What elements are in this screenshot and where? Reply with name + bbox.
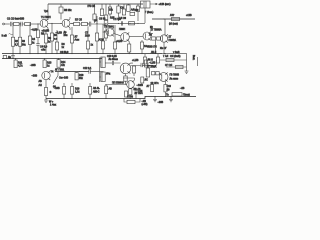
svg-text:Т3 П39Н: Т3 П39Н <box>104 26 114 29</box>
resistor R14c <box>122 4 125 15</box>
svg-text:−1,5В: −1,5В <box>149 62 156 65</box>
capacitor C9b <box>121 21 122 25</box>
transistor T4 <box>42 71 50 80</box>
wire head to C10 <box>105 62 112 64</box>
resistor R9b <box>93 4 96 23</box>
svg-text:ЛС: ЛС <box>145 79 149 82</box>
svg-text:П39Н: П39Н <box>119 28 125 31</box>
svg-text:20н: 20н <box>64 34 69 37</box>
svg-text:−10В: −10В <box>54 87 60 90</box>
svg-text:47к: 47к <box>61 64 66 67</box>
wire mid rail right corner <box>162 54 187 70</box>
transistor T6 <box>127 80 135 88</box>
capacitor C10 <box>112 61 120 65</box>
svg-text:С6 50,0: С6 50,0 <box>60 51 69 54</box>
svg-text:Л4?: Л4? <box>170 14 175 17</box>
capacitor C4 <box>36 38 39 54</box>
resistor R28 <box>113 25 116 54</box>
wire +12V bus <box>152 18 195 20</box>
svg-text:П39ВА: П39ВА <box>169 39 177 42</box>
resistor R13 <box>43 59 46 68</box>
head GU1 <box>101 57 105 68</box>
svg-text:АСМ: АСМ <box>99 38 104 41</box>
svg-text:3 мВ: 3 мВ <box>2 35 8 38</box>
wire T6 collector up <box>123 78 134 80</box>
svg-text:56к: 56к <box>22 43 27 46</box>
svg-text:Ф: Ф <box>50 91 52 94</box>
resistor R30 <box>140 40 143 54</box>
capacitor C12 <box>89 70 104 74</box>
resistor R31b <box>166 58 174 61</box>
resistor R24b <box>127 100 135 103</box>
wire output bracket <box>197 57 199 66</box>
svg-text:R7 С5: R7 С5 <box>75 19 82 22</box>
wire T4 emitter chain <box>45 80 47 88</box>
resistor R7 <box>74 22 82 25</box>
resistor R29b <box>172 17 180 20</box>
resistor R22b <box>105 84 108 99</box>
resistor R27 <box>101 24 104 54</box>
resistor R23b <box>125 91 128 97</box>
svg-text:Т2 П39: Т2 П39 <box>113 18 122 21</box>
resistor R14b <box>57 59 60 68</box>
wire T1 to T2 <box>48 22 62 24</box>
resistor R33 <box>133 66 136 77</box>
svg-text:АВ!-С: АВ!-С <box>93 91 100 94</box>
resistor R36 <box>151 82 154 92</box>
resistor R33b <box>176 65 184 68</box>
svg-text:−10/В: −10/В <box>137 84 144 87</box>
svg-text:АВ: АВ <box>39 80 43 83</box>
resistor R28b <box>157 37 161 40</box>
wire transformer secondary down <box>144 8 146 23</box>
resistor R19 <box>63 83 66 99</box>
svg-text:15к: 15к <box>109 9 114 12</box>
svg-text:С8 33: С8 33 <box>99 17 106 20</box>
svg-text:1,2к: 1,2к <box>75 91 80 94</box>
svg-text:51к: 51к <box>79 77 84 80</box>
ground left <box>11 54 15 59</box>
transformer Tr1 <box>141 1 151 8</box>
svg-text:Ом−10В: Ом−10В <box>59 77 69 80</box>
resistor R21b <box>89 83 92 99</box>
resistor R35b <box>156 72 162 76</box>
wire T7 emitter down <box>163 42 165 54</box>
svg-text:Алм: Алм <box>75 39 80 42</box>
svg-text:АЧ Л: АЧ Л <box>151 51 157 54</box>
svg-text:1к: 1к <box>91 44 94 47</box>
ground bottom left <box>44 99 48 103</box>
resistor R2 <box>11 26 14 54</box>
svg-text:Т1 П39Н: Т1 П39Н <box>41 16 51 19</box>
transistor T8 <box>159 73 168 82</box>
wire rail3 <box>55 71 89 73</box>
resistor R21 <box>36 24 39 38</box>
svg-text:АВ: АВ <box>109 88 113 91</box>
svg-text:20,0: 20,0 <box>85 35 90 38</box>
wire T7 collector up <box>164 19 166 35</box>
svg-text:−0,2В: −0,2В <box>56 31 63 34</box>
svg-text:1 4мк: 1 4мк <box>50 104 57 107</box>
svg-text:ГВ П39В: ГВ П39В <box>170 74 180 77</box>
resistor R27c <box>104 25 107 41</box>
ground bottom right <box>169 97 173 102</box>
wire sub loop right <box>135 99 140 103</box>
svg-text:Л7: Л7 <box>147 85 151 88</box>
resistor R6 <box>28 24 31 54</box>
wire T8 emitter down <box>165 81 167 84</box>
resistor R24 <box>55 30 58 54</box>
resistor R18a <box>129 22 135 25</box>
svg-text:СГ СЯ: СГ СЯ <box>165 64 172 67</box>
resistor R4 <box>18 26 21 54</box>
node input terminal <box>3 23 10 25</box>
resistor R27b <box>152 37 156 40</box>
switch B1 <box>53 72 58 84</box>
svg-text:П39: П39 <box>134 9 139 12</box>
wire T1 collector to rail <box>47 4 49 20</box>
wire T5 collector <box>130 63 140 65</box>
resistor R16 <box>127 4 130 11</box>
capacitor C5 <box>89 22 106 27</box>
resistor R5 <box>59 4 63 20</box>
svg-text:С15: С15 <box>138 90 143 93</box>
svg-text:Вых.: Вых. <box>192 55 195 61</box>
wire head common <box>100 58 101 83</box>
resistor R29 <box>128 42 131 54</box>
resistor R25 <box>86 26 89 53</box>
svg-text:С12 0,1: С12 0,1 <box>83 67 92 70</box>
resistor R35 <box>152 72 155 75</box>
resistor R37 <box>164 84 167 97</box>
svg-text:+12В (пит.): +12В (пит.) <box>159 3 171 6</box>
wire mid rail <box>2 53 162 55</box>
capacitor C1 <box>11 22 14 26</box>
wire bottom rail <box>46 97 196 99</box>
svg-text:ПП П39НА: ПП П39НА <box>112 81 124 84</box>
svg-text:+1,5В: +1,5В <box>132 59 139 62</box>
resistor R34 <box>146 63 149 77</box>
wire T2 to R7 <box>70 22 74 24</box>
head GU2 <box>101 72 105 82</box>
svg-text:С1 С2 6мк×10В: С1 С2 6мк×10В <box>7 18 25 21</box>
svg-text:Лв б/зап: Лв б/зап <box>109 58 119 61</box>
svg-text:т ЗмВ: т ЗмВ <box>173 51 180 54</box>
resistor R32c <box>143 54 146 64</box>
capacitor C2 <box>21 22 25 26</box>
svg-text:W +: W + <box>49 101 54 104</box>
wire second out <box>166 66 187 68</box>
resistor R14 <box>117 4 120 21</box>
svg-text:7 АЛ: 7 АЛ <box>163 55 169 58</box>
transistor T4a <box>121 33 130 42</box>
wire divider tap <box>154 40 156 54</box>
svg-text:(+3В): (+3В) <box>142 103 148 106</box>
svg-text:ЛЧк: ЛЧк <box>106 73 111 76</box>
transistor T5 <box>120 63 131 74</box>
svg-text:+Лв: +Лв <box>41 49 46 52</box>
svg-text:Г (Зап.): Г (Зап.) <box>145 11 153 14</box>
resistor R8 <box>81 22 89 25</box>
resistor R32b <box>156 54 159 63</box>
svg-text:2к: 2к <box>32 41 35 44</box>
svg-text:4,7к: 4,7к <box>18 65 23 68</box>
resistor R22 <box>44 30 47 54</box>
resistor R12 <box>108 4 111 16</box>
inductor Dr1 <box>70 27 73 54</box>
transistor T3 <box>106 28 114 37</box>
wire sub loop left <box>124 99 127 103</box>
resistor R9 <box>100 4 103 16</box>
svg-text:ЖГ: ЖГ <box>149 34 153 37</box>
node sine mark <box>9 34 13 35</box>
svg-text:АЛ: АЛ <box>131 9 135 12</box>
svg-text:Л6 Л: Л6 Л <box>148 59 154 62</box>
wire chain to transformer <box>108 22 145 24</box>
svg-text:−20В: −20В <box>30 64 36 67</box>
resistor R18 <box>75 72 78 80</box>
wire T1 emitter down <box>47 28 49 30</box>
svg-text:С10 0,25: С10 0,25 <box>107 55 117 58</box>
capacitor C15 <box>134 88 137 99</box>
svg-text:Т4: Т4 <box>51 71 54 74</box>
resistor R20 <box>71 83 74 99</box>
svg-text:(М (зап): (М (зап) <box>169 23 178 26</box>
svg-text:+0,5В: +0,5В <box>116 40 123 43</box>
resistor R1 <box>14 22 21 25</box>
svg-text:С4 5,0: С4 5,0 <box>40 46 48 49</box>
resistor R11a <box>3 55 6 58</box>
svg-text:+12В: +12В <box>186 14 192 17</box>
resistor R33c <box>144 60 147 67</box>
wire T3 base <box>103 31 106 33</box>
wire T4a to T5a <box>129 36 143 38</box>
wire +12V feed arrow <box>150 3 158 5</box>
resistor R33d <box>141 77 144 83</box>
svg-text:R5 15к: R5 15к <box>64 9 72 12</box>
svg-text:АЛ: АЛ <box>39 84 43 87</box>
transistor T1 <box>40 19 48 28</box>
svg-text:ЛГ ГЗВ1: ЛГ ГЗВ1 <box>55 68 65 71</box>
svg-text:Ив СГ: Ив СГ <box>160 47 167 50</box>
resistor R23c <box>129 88 132 98</box>
wire top supply rail <box>48 3 143 5</box>
transistor T2 <box>62 19 70 28</box>
svg-text:+19В ПЧ: +19В ПЧ <box>147 46 157 49</box>
resistor R23 <box>50 23 53 53</box>
svg-text:Г(пер): Г(пер) <box>183 94 190 97</box>
svg-text:Тр1: Тр1 <box>44 10 49 13</box>
wire rail2 <box>2 58 102 60</box>
svg-text:1к: 1к <box>47 65 50 68</box>
wire T3 to T4a <box>114 34 121 36</box>
wire T2 collector <box>69 17 71 30</box>
svg-text:ПЧ ОВ: ПЧ ОВ <box>88 5 96 8</box>
resistor R3 <box>25 22 41 25</box>
svg-text:Лв линз: Лв линз <box>170 78 179 81</box>
ground bottom mid <box>153 97 157 102</box>
svg-text:−2В: −2В <box>180 87 185 90</box>
svg-text:Л9: Л9 <box>167 89 171 92</box>
resistor R21e <box>124 74 127 85</box>
svg-text:1к: 1к <box>62 46 65 49</box>
transistor T7 <box>160 34 168 42</box>
svg-text:Тв: Тв <box>166 93 169 96</box>
resistor R17 <box>136 4 139 21</box>
resistor R32 <box>44 88 47 99</box>
svg-text:СЯ (ЗмВ): СЯ (ЗмВ) <box>170 55 181 58</box>
resistor R38 <box>172 93 182 96</box>
resistor R11 <box>14 59 17 68</box>
resistor R10 <box>104 4 108 25</box>
capacitor C13 <box>141 60 156 67</box>
transistor T5a <box>143 32 151 41</box>
wire output line <box>160 59 187 61</box>
resistor R16b <box>130 12 135 15</box>
node junction dots <box>12 18 171 99</box>
resistor R26 <box>95 16 98 54</box>
wire T6 base <box>105 84 127 86</box>
svg-text:−20В: −20В <box>32 75 38 78</box>
ground output <box>185 70 189 73</box>
svg-text:−20В: −20В <box>158 101 164 104</box>
